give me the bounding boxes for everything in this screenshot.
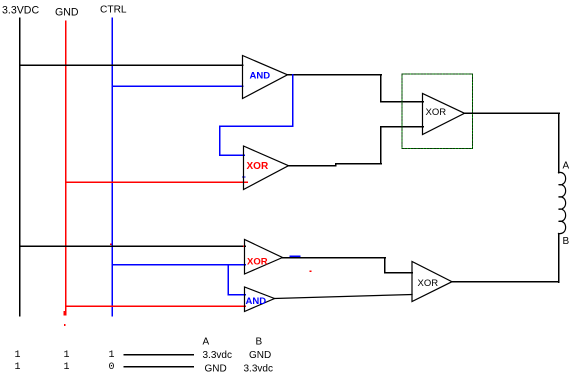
svg-text:0: 0	[109, 362, 115, 373]
highlight box (green dashed) around XOR U3	[402, 74, 473, 149]
XOR gate U3 label	[426, 107, 447, 118]
svg-text:A: A	[563, 161, 570, 172]
svg-text:1: 1	[109, 350, 115, 361]
svg-text:XOR: XOR	[247, 257, 268, 268]
wire: U4 output horizontal	[283, 257, 386, 259]
XOR gate U6	[412, 262, 452, 302]
wire: U2 output vertical up	[380, 127, 382, 164]
svg-text:3.3VDC: 3.3VDC	[2, 5, 39, 17]
red artifact dot below GND rail	[64, 324, 66, 326]
CTRL label	[100, 5, 127, 16]
svg-text:3.3vdc: 3.3vdc	[244, 363, 273, 374]
wire: GND to XOR U2 input B (red)	[66, 181, 248, 183]
truth table row 2 rule	[124, 366, 193, 368]
wire: U3 output to node A	[465, 112, 560, 114]
wire: blue feedback vertical down	[219, 126, 221, 155]
wire: bottom horizontal to XOR U6 output	[452, 281, 559, 283]
wire: GND to AND U5 input B (red)	[66, 305, 246, 307]
svg-text:3.3vdc: 3.3vdc	[203, 350, 232, 361]
truth table row 1 rule	[124, 354, 193, 356]
3.3VDC label	[2, 5, 39, 17]
XOR gate U2 label	[247, 161, 269, 172]
svg-text:A: A	[203, 337, 210, 348]
truth table row 1 result	[203, 350, 272, 361]
wire: U1 output vertical down	[380, 75, 382, 102]
red tick artifact at XOR U4 input	[243, 246, 245, 248]
wire: into XOR U3 top input	[381, 101, 424, 103]
AND gate U5 label	[246, 296, 267, 307]
wire: inductor bottom vertical down	[558, 234, 560, 283]
wire: 3.3VDC to XOR U4 input A	[20, 245, 246, 247]
wire: U5 output sloped into XOR U6 bottom input	[275, 295, 413, 299]
wire: into XOR U3 bottom input	[381, 126, 424, 128]
svg-text:XOR: XOR	[247, 161, 269, 172]
GND rail bottom blob	[64, 311, 67, 316]
wire: U4 output vertical down	[384, 258, 386, 273]
wire: blue feedback into XOR U2 input A	[220, 154, 245, 156]
XOR gate U4	[245, 240, 283, 275]
3.3VDC rail (vertical black wire)	[19, 18, 21, 316]
blue tick artifact on XOR U2 left edge	[243, 176, 246, 178]
wire: CTRL to XOR U4 input B (blue)	[112, 264, 245, 266]
wire: U2 output horizontal	[289, 165, 336, 167]
wire: blue feedback from U1 output down	[292, 75, 294, 126]
XOR gate U6 label	[418, 278, 439, 289]
wire: small jog up	[335, 164, 337, 166]
XOR gate U2	[244, 146, 289, 190]
svg-text:1: 1	[64, 362, 70, 373]
svg-text:CTRL: CTRL	[100, 5, 127, 16]
svg-text:XOR: XOR	[418, 278, 439, 289]
wire: U2 output second horizontal	[336, 163, 382, 165]
wire: blue branch into AND U5 input A	[228, 294, 245, 296]
AND gate U5	[245, 287, 275, 312]
CTRL rail (vertical blue wire)	[111, 18, 113, 316]
svg-text:GND: GND	[205, 363, 227, 374]
wire: CTRL to AND gate U1 input B (blue)	[112, 85, 243, 87]
svg-text:1: 1	[64, 350, 70, 361]
svg-text:B: B	[563, 236, 570, 247]
node B label	[563, 236, 570, 247]
svg-text:GND: GND	[249, 350, 271, 361]
XOR gate U4 label	[247, 257, 268, 268]
wire: blue branch vertical down	[227, 265, 229, 295]
wire: 3.3VDC to AND gate U1 input A	[20, 64, 243, 66]
inductor L1	[559, 172, 566, 233]
truth table header A	[203, 337, 210, 348]
red artifact dot right of U4	[310, 271, 312, 273]
truth table header B	[256, 337, 263, 348]
wire: blue feedback horizontal left	[220, 125, 293, 127]
svg-text:XOR: XOR	[426, 107, 447, 118]
wire: into XOR U6 top input	[385, 272, 413, 274]
svg-text:1: 1	[15, 362, 21, 373]
XOR gate U3	[423, 94, 465, 135]
svg-text:B: B	[256, 337, 263, 348]
GND rail (vertical red wire)	[65, 21, 67, 311]
GND label	[55, 7, 79, 19]
svg-text:1: 1	[15, 350, 21, 361]
wire: U1 output horizontal	[288, 74, 382, 76]
svg-text:AND: AND	[246, 296, 267, 307]
truth table row 2 result	[205, 363, 273, 374]
svg-text:AND: AND	[250, 71, 271, 82]
red dot artifact on CTRL rail	[110, 244, 112, 246]
AND gate U1	[243, 56, 288, 99]
AND gate U1 label	[250, 71, 271, 82]
truth table row 1 inputs	[15, 350, 115, 361]
wire: vertical down to inductor top	[558, 113, 560, 173]
node A label	[563, 161, 570, 172]
blue artifact on U4 output	[290, 255, 300, 257]
svg-text:GND: GND	[55, 7, 79, 19]
truth table row 2 inputs	[15, 362, 115, 373]
